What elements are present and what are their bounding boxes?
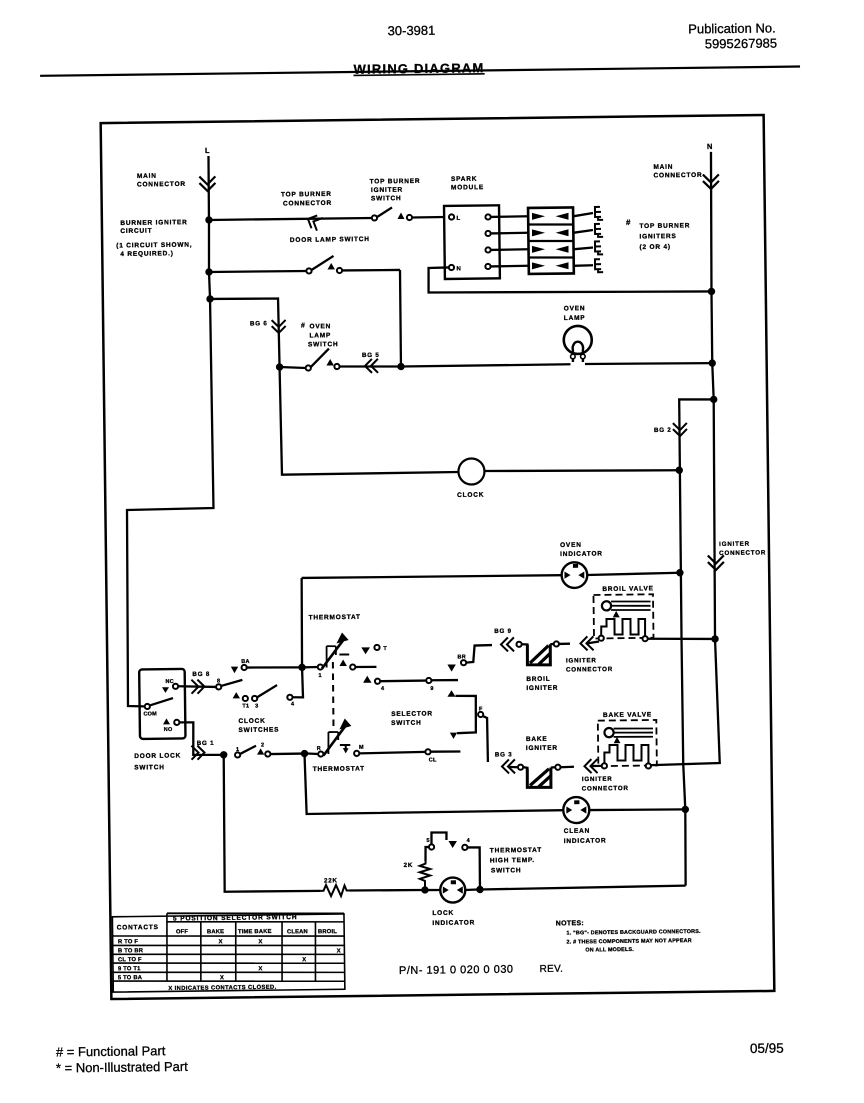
svg-text:COM: COM — [143, 711, 157, 717]
svg-text:X: X — [219, 939, 223, 945]
wires module to block — [491, 215, 528, 218]
wire conn to broil valve — [588, 642, 599, 644]
wire NO to BG1 — [180, 722, 221, 755]
clock — [458, 458, 484, 484]
spark module pin L — [449, 214, 454, 219]
svg-text:BROIL VALVE: BROIL VALVE — [602, 585, 654, 593]
clock switch 3 blade — [257, 685, 277, 697]
main connector L chevron — [199, 176, 215, 191]
svg-text:THERMOSTAT: THERMOSTAT — [490, 847, 542, 855]
wire BR to BG9 — [466, 645, 492, 663]
thermostat lower blade — [323, 727, 345, 756]
broil valve box — [593, 594, 653, 638]
svg-text:1: 1 — [236, 747, 239, 753]
wire 2K to contact 5 — [425, 847, 429, 861]
clock contact 4 — [287, 695, 292, 700]
svg-text:SELECTOR: SELECTOR — [391, 710, 433, 718]
wire clean to BG2 rail — [589, 809, 685, 811]
connector BG2 chevron — [673, 423, 687, 436]
wire selector up to F — [455, 696, 476, 715]
svg-text:HIGH TEMP.: HIGH TEMP. — [490, 857, 535, 865]
wire BG6 drop to clock — [280, 365, 459, 475]
svg-text:OVEN: OVEN — [560, 542, 582, 549]
svg-text:LAMP: LAMP — [564, 315, 586, 322]
top burner igniter switch — [372, 215, 377, 220]
junction oven lamp switch — [276, 363, 283, 370]
high temp switch blade — [431, 832, 446, 844]
svg-text:L: L — [456, 216, 460, 222]
svg-text:2: 2 — [261, 742, 264, 748]
svg-text:IGNITER: IGNITER — [719, 541, 750, 548]
svg-text:N: N — [456, 266, 460, 272]
oven indicator — [561, 562, 587, 588]
wire oven lamp line — [401, 364, 570, 366]
wire NC to BG8 — [178, 686, 216, 688]
broil igniter terminal 2 — [554, 641, 559, 646]
svg-text:MAIN: MAIN — [653, 164, 673, 171]
selector contact F — [478, 712, 483, 717]
wire 2 to thermostat — [270, 752, 303, 755]
door lock COM — [145, 704, 150, 709]
wire BG2 rail — [679, 399, 720, 886]
svg-text:SWITCH: SWITCH — [308, 341, 339, 348]
svg-text:CONTACTS: CONTACTS — [117, 924, 159, 932]
thermostat upper body — [325, 646, 327, 667]
svg-text:IGNITER: IGNITER — [371, 187, 403, 194]
svg-text:CONNECTOR: CONNECTOR — [719, 549, 766, 557]
svg-text:BG 9: BG 9 — [494, 628, 512, 635]
bake valve arrow — [614, 737, 621, 743]
svg-text:BAKE: BAKE — [526, 736, 548, 743]
svg-text:LAMP: LAMP — [309, 332, 331, 339]
selector contact up — [447, 690, 455, 697]
broil valve terminals — [599, 636, 604, 641]
svg-text:IGNITER: IGNITER — [566, 657, 597, 664]
svg-text:4 REQUIRED.): 4 REQUIRED.) — [120, 250, 173, 258]
wire jct to lower thermostat — [307, 752, 318, 755]
door lock switch box — [139, 669, 185, 739]
clock contact BA — [231, 667, 238, 674]
svg-text:#: # — [301, 322, 305, 329]
wire oven indicator — [302, 575, 562, 579]
wire BA junction to thermostat — [302, 666, 318, 669]
svg-text:NOTES:: NOTES: — [556, 920, 584, 927]
bake igniter terminal 1 — [518, 765, 523, 770]
door lock NC — [162, 687, 169, 693]
lock indicator — [440, 877, 465, 902]
wire into lock indicator — [427, 889, 440, 892]
wire selector down to F — [457, 715, 476, 734]
svg-text:BAKE VALVE: BAKE VALVE — [603, 711, 652, 719]
svg-text:MAIN: MAIN — [137, 173, 157, 180]
svg-text:22K: 22K — [324, 877, 338, 884]
bake valve winding — [604, 745, 648, 764]
svg-text:R: R — [317, 746, 321, 752]
table grid — [167, 911, 344, 915]
spark module right pins — [485, 214, 490, 219]
svg-text:#: # — [626, 218, 631, 227]
svg-text:BURNER IGNITER: BURNER IGNITER — [120, 219, 187, 227]
connector BG3 chevron — [502, 759, 515, 773]
svg-text:3: 3 — [255, 704, 258, 710]
svg-text:MODULE: MODULE — [451, 184, 484, 191]
svg-text:5: 5 — [426, 838, 429, 844]
svg-text:B TO BR: B TO BR — [118, 948, 144, 954]
wire L drop — [121, 156, 216, 707]
svg-text:THERMOSTAT: THERMOSTAT — [313, 765, 365, 773]
svg-text:IGNITER: IGNITER — [526, 685, 558, 692]
svg-text:SWITCH: SWITCH — [371, 195, 402, 202]
junction oven ind BG2 rail — [676, 569, 683, 576]
wire N rail — [641, 152, 720, 765]
main connector N chevron — [703, 174, 719, 189]
wire to oven lamp switch — [280, 367, 306, 369]
junction door lamp line — [205, 268, 212, 275]
svg-text:TOP BURNER: TOP BURNER — [370, 178, 421, 186]
svg-text:5995267985: 5995267985 — [705, 36, 777, 52]
svg-text:M: M — [359, 745, 364, 751]
junction clean BG2 rail — [682, 806, 689, 813]
connector BG1 chevron — [191, 746, 204, 760]
clock switch 8 — [216, 684, 221, 689]
broil valve coil — [602, 601, 611, 610]
thermostat lower contact — [343, 748, 349, 753]
svg-text:CONNECTOR: CONNECTOR — [566, 666, 613, 674]
wire bake igniter to conn — [551, 766, 556, 769]
svg-text:CL TO F: CL TO F — [118, 957, 142, 963]
svg-text:05/95: 05/95 — [750, 1041, 784, 1056]
wires block to top burner igniters — [573, 213, 593, 216]
wire BA to junction — [247, 667, 302, 668]
selector contact 4 — [363, 676, 371, 683]
svg-text:INDICATOR: INDICATOR — [560, 550, 603, 558]
thermostat capillary dashed — [333, 662, 334, 731]
connector BG8 chevron — [191, 680, 204, 694]
igniter connector block arrows — [532, 213, 545, 220]
svg-text:X: X — [258, 939, 262, 945]
svg-text:L: L — [205, 146, 210, 155]
junction lock left — [421, 886, 428, 893]
svg-text:DOOR LAMP SWITCH: DOOR LAMP SWITCH — [290, 236, 370, 244]
wire bottom rail drop — [223, 754, 321, 892]
svg-text:THERMOSTAT: THERMOSTAT — [309, 614, 361, 622]
svg-text:CLOCK: CLOCK — [238, 718, 265, 725]
table outer box — [112, 914, 345, 992]
wire CL stub — [430, 750, 460, 753]
svg-text:CL: CL — [429, 757, 437, 763]
junction BA line — [298, 664, 305, 671]
svg-text:CONNECTOR: CONNECTOR — [283, 200, 332, 208]
clock contact 2 — [257, 748, 264, 754]
wire door lamp drop — [400, 270, 401, 367]
wire lower thermostat to CL — [359, 752, 425, 754]
svg-text:TOP BURNER: TOP BURNER — [281, 191, 332, 199]
junction lower thermostat — [301, 750, 308, 757]
svg-text:X: X — [220, 975, 224, 981]
connector BG5 chevron — [365, 359, 378, 373]
selector contact down — [450, 733, 457, 739]
oven lamp switch — [306, 365, 311, 370]
svg-text:# = Functional Part: # = Functional Part — [56, 1043, 166, 1059]
svg-text:T1: T1 — [242, 703, 249, 709]
broil igniter terminal 1 — [516, 642, 521, 647]
svg-text:BR: BR — [457, 654, 465, 660]
svg-text:SWITCHES: SWITCHES — [238, 727, 279, 734]
high temp contact 5 — [429, 844, 434, 849]
svg-text:CONNECTOR: CONNECTOR — [137, 181, 186, 189]
top burner connector chevron — [305, 213, 323, 231]
junction top burner line — [205, 216, 212, 223]
bake valve terminals — [602, 763, 607, 768]
wire spark module to N rail — [428, 264, 711, 295]
connector BG6 chevron — [272, 320, 286, 333]
junction oven lamp N rail — [709, 359, 716, 366]
junction broil valve N rail — [711, 635, 718, 642]
svg-text:ON ALL MODELS.: ON ALL MODELS. — [585, 947, 634, 954]
svg-text:BAKE: BAKE — [207, 929, 224, 935]
thermostat lower body — [327, 732, 330, 754]
junction lock right — [476, 886, 483, 893]
svg-text:SWITCH: SWITCH — [391, 720, 422, 727]
broil igniter connector chevron — [580, 636, 593, 650]
wire oven lamp branch — [210, 298, 280, 368]
svg-text:SWITCH: SWITCH — [491, 867, 522, 874]
svg-text:9 TO T1: 9 TO T1 — [118, 966, 141, 972]
contact T — [361, 647, 370, 654]
svg-text:CONNECTOR: CONNECTOR — [653, 172, 702, 180]
svg-text:X: X — [337, 948, 341, 954]
header rule — [40, 67, 800, 76]
wire to broil igniter — [522, 643, 529, 646]
thermostat upper terminal — [318, 664, 323, 669]
junction BG1 dot — [220, 751, 227, 758]
selector contact BR — [447, 664, 455, 671]
clean indicator — [563, 797, 589, 823]
svg-text:TIME BAKE: TIME BAKE — [238, 929, 272, 935]
svg-text:1: 1 — [318, 673, 321, 679]
wire top burner line left — [209, 218, 372, 220]
svg-text:WIRING DIAGRAM: WIRING DIAGRAM — [353, 60, 484, 77]
svg-text:BG 6: BG 6 — [250, 320, 268, 327]
svg-text:BG 5: BG 5 — [362, 352, 380, 359]
svg-text:X: X — [258, 966, 262, 972]
bake valve coil — [604, 728, 613, 737]
wire contact4 to rail — [467, 847, 480, 889]
svg-text:9: 9 — [430, 686, 433, 692]
wire to bake igniter — [523, 766, 528, 769]
wire clean indicator — [304, 750, 563, 814]
svg-text:P/N- 191 0 020 0 030: P/N- 191 0 020 0 030 — [399, 964, 514, 977]
wire thermostat upper stub — [355, 666, 376, 669]
igniter connector rail chevron — [708, 555, 724, 570]
svg-text:* = Non-Illustrated Part: * = Non-Illustrated Part — [56, 1059, 188, 1076]
clock switch 1 — [235, 752, 240, 757]
wire broil igniter to conn — [550, 643, 554, 646]
door lamp switch — [306, 268, 311, 273]
svg-text:R TO F: R TO F — [118, 939, 138, 945]
svg-text:BA: BA — [241, 659, 249, 665]
svg-text:DOOR LOCK: DOOR LOCK — [134, 752, 181, 760]
svg-text:SPARK: SPARK — [451, 176, 477, 183]
selector contact 9 — [426, 678, 431, 683]
broil valve arrow — [613, 611, 620, 618]
wire conn to bake valve — [592, 765, 602, 767]
wire broil valve to N rail — [648, 638, 712, 640]
svg-text:BG 8: BG 8 — [192, 671, 210, 678]
bake igniter element — [527, 768, 551, 788]
wire lock to corner — [465, 888, 477, 891]
svg-text:(2 OR 4): (2 OR 4) — [639, 244, 670, 251]
thermostat upper blade — [322, 640, 344, 668]
svg-text:5 TO BA: 5 TO BA — [118, 975, 143, 981]
oven lamp bulb — [564, 326, 592, 354]
bake valve box — [598, 720, 657, 766]
wire bottom rail right — [480, 886, 686, 890]
wire door lamp left — [209, 271, 307, 272]
svg-text:LOCK: LOCK — [432, 910, 454, 917]
svg-text:Publication No.: Publication No. — [688, 20, 776, 36]
svg-text:BG 2: BG 2 — [654, 427, 672, 434]
bake igniter terminal 2 — [555, 765, 560, 770]
junction N spark — [708, 288, 715, 295]
bake igniter connector chevron — [584, 759, 597, 773]
svg-text:(1 CIRCUIT SHOWN,: (1 CIRCUIT SHOWN, — [116, 242, 192, 250]
svg-text:IGNITER: IGNITER — [582, 776, 613, 783]
high temp contact 4 — [462, 845, 467, 850]
svg-text:BROIL: BROIL — [318, 929, 337, 935]
svg-text:OVEN: OVEN — [564, 305, 586, 312]
wire clock to BG2 rail — [485, 469, 680, 473]
svg-text:REV.: REV. — [539, 964, 563, 975]
svg-text:INDICATOR: INDICATOR — [564, 837, 607, 845]
svg-text:IGNITERS: IGNITERS — [639, 233, 676, 240]
wire 4 to 9 — [380, 679, 426, 682]
svg-text:OVEN: OVEN — [309, 323, 331, 330]
door lock NO — [163, 718, 170, 724]
connector BG9 chevron — [501, 637, 514, 651]
junction oven lamp branch — [206, 295, 213, 302]
resistor 2K — [420, 861, 431, 887]
top burner igniter elements — [595, 207, 603, 220]
broil valve winding — [601, 619, 645, 637]
svg-text:CLEAN: CLEAN — [564, 828, 590, 835]
svg-text:X: X — [302, 957, 306, 963]
svg-text:SWITCH: SWITCH — [134, 764, 165, 771]
spark module box — [444, 205, 500, 279]
svg-text:BROIL: BROIL — [526, 676, 550, 683]
wire BG3 to bake igniter — [508, 766, 518, 769]
wire 9 stub — [431, 679, 458, 682]
selector contact CL — [425, 749, 430, 754]
junction door lamp to oven lamp — [397, 363, 404, 370]
svg-text:8: 8 — [217, 678, 220, 684]
thermostat lower terminal — [318, 751, 323, 756]
junction clock BG2 rail — [676, 466, 683, 473]
svg-text:NC: NC — [165, 679, 173, 685]
svg-text:N: N — [707, 142, 713, 151]
igniter connector block — [528, 207, 574, 274]
svg-text:CLEAN: CLEAN — [287, 929, 308, 935]
wire oven indicator right — [587, 573, 680, 575]
svg-text:TOP BURNER: TOP BURNER — [639, 222, 690, 230]
clock contact T1 3 — [233, 692, 240, 698]
svg-text:CLOCK: CLOCK — [457, 492, 484, 499]
svg-text:BG 3: BG 3 — [495, 751, 513, 758]
svg-text:OFF: OFF — [176, 929, 189, 935]
wire F to BG3 — [483, 716, 488, 762]
spark module pin N — [449, 265, 454, 270]
svg-text:30-3981: 30-3981 — [388, 23, 436, 39]
svg-text:BG 1: BG 1 — [197, 740, 215, 747]
wire oven ind corner to clock sw — [291, 578, 303, 698]
thermostat upper contact — [339, 659, 347, 666]
svg-text:INDICATOR: INDICATOR — [432, 919, 475, 927]
svg-text:CONNECTOR: CONNECTOR — [582, 785, 629, 793]
broil igniter element — [527, 644, 550, 665]
resistor 22K — [320, 885, 349, 897]
junction N rail BG2 — [710, 396, 717, 403]
svg-text:IGNITER: IGNITER — [526, 745, 558, 752]
svg-text:NO: NO — [164, 727, 173, 733]
wire resistor to lock — [349, 890, 422, 891]
svg-text:CIRCUIT: CIRCUIT — [120, 228, 152, 235]
diagram border — [101, 115, 775, 999]
svg-text:2K: 2K — [404, 862, 414, 869]
